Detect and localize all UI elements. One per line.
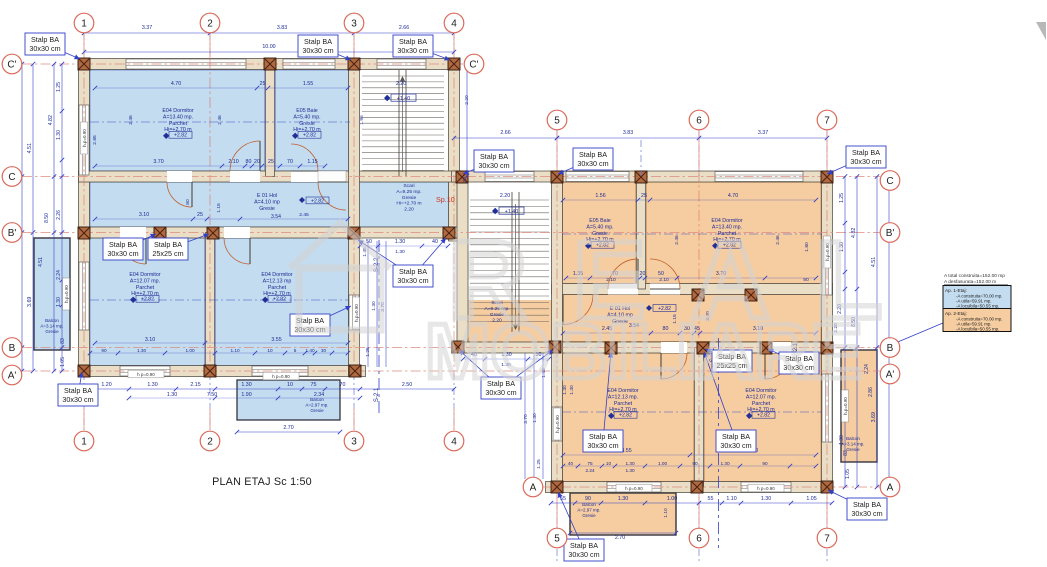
dim left chain x33 [32,64,34,371]
svg-text:30x30 cm: 30x30 cm [478,161,509,170]
wall grid2 lower [206,233,215,372]
svg-text:30x30 cm: 30x30 cm [29,44,60,53]
balcony right fill [841,350,877,462]
axis line C' [22,63,464,65]
dim between-units vertical [466,64,468,176]
dim row hol right [563,332,816,334]
svg-text:h p=0.90: h p=0.90 [272,374,290,379]
svg-text:1.25: 1.25 [56,82,62,92]
svg-text:20: 20 [254,159,260,165]
svg-text:2.24: 2.24 [585,468,595,473]
door gap B' wall room1 [120,227,146,238]
wall C interior left [79,171,460,182]
svg-text:C: C [886,176,893,187]
stalp box B' a [123,234,156,249]
axis line C [22,176,880,178]
dim stair-top right [463,358,549,360]
stalp box center [459,350,501,388]
dim row bottom-left a [95,342,348,344]
svg-text:A=4.10 mp: A=4.10 mp [254,199,280,205]
svg-text:3: 3 [351,437,357,448]
door gap B wall room1 right [765,342,791,353]
dim right chain x857 [856,177,858,488]
axis mid bottom rooms right [562,411,822,413]
grid circle A' left [2,365,22,385]
axis mid top rooms left [90,121,350,123]
window grid3 notch [349,295,359,330]
dim bottom-left row2 [129,397,360,399]
svg-text:5: 5 [294,348,297,353]
dim row hol left [95,218,348,220]
svg-text:S-2.1: S-2.1 [374,387,380,402]
svg-text:A: A [530,483,537,494]
column stalp at (270,64) [264,58,276,70]
svg-text:1.30: 1.30 [56,130,62,140]
svg-text:1.56: 1.56 [595,193,605,199]
grid circle 4 top [444,13,464,33]
grid circle 5 bottom [547,528,567,548]
door arc E04 left [230,141,260,171]
dim row bottom-right b [563,465,816,467]
svg-text:PLAN ETAJ Sc 1:50: PLAN ETAJ Sc 1:50 [212,476,312,488]
svg-text:1.96: 1.96 [359,115,365,125]
wall bottom A' left unit [79,366,366,377]
svg-text:25: 25 [260,81,266,87]
svg-text:Stalp BA: Stalp BA [852,148,880,157]
svg-text:Stalp BA: Stalp BA [579,150,607,159]
svg-text:30x30 cm: 30x30 cm [107,249,138,258]
stalp box below-right a [603,352,611,441]
svg-text:30x30 cm: 30x30 cm [397,276,428,285]
svg-text:25: 25 [641,193,647,199]
svg-text:30x30 cm: 30x30 cm [587,441,618,450]
stalp box B' b [168,234,209,249]
svg-text:Stalp BA: Stalp BA [399,37,427,46]
stalp box top grid4 [413,46,450,60]
door arc bottom room1 left [120,238,146,264]
svg-text:Stalp BA: Stalp BA [853,500,881,509]
axis stub x=210 bottom [209,408,211,430]
svg-text:7: 7 [824,116,830,127]
svg-text:Hi=+2.70 m: Hi=+2.70 m [396,201,421,207]
svg-text:MOBILIARE: MOBILIARE [425,307,863,395]
svg-text:h p=0.90: h p=0.90 [625,486,643,491]
svg-text:Ap. 1-Etaj:: Ap. 1-Etaj: [945,288,967,293]
axis stub x=84 bottom [83,408,85,430]
svg-text:h.p=0.90: h.p=0.90 [82,129,87,147]
svg-text:1.00: 1.00 [667,496,677,502]
svg-text:A': A' [8,371,17,382]
axis line B' [22,232,880,234]
svg-text:A=12.13 mp: A=12.13 mp [263,278,292,284]
grid circle C right [880,171,900,191]
room E05 Baie right [563,182,636,284]
dim right-unit top [557,137,827,139]
svg-text:A=3.14 mp.: A=3.14 mp. [841,442,864,447]
door arc bottom room2 right [661,353,687,379]
column stalp at (160,233) [154,227,166,239]
grid circle B right [880,338,900,358]
dim stair-bottom left [360,245,448,247]
svg-text:25x25 cm: 25x25 cm [152,249,183,258]
svg-text:+2.82: +2.82 [757,413,770,419]
svg-text:A=12.07 mp.: A=12.07 mp. [746,394,776,400]
grid circle 6 bottom [689,528,709,548]
svg-text:3.83: 3.83 [277,25,287,31]
svg-text:1.40: 1.40 [305,348,315,353]
stairs left treads [362,75,444,77]
svg-text:A=2.97 mp.: A=2.97 mp. [305,403,328,408]
svg-text:3.70: 3.70 [523,414,529,424]
dim notch right lines [524,353,526,479]
svg-text:h.p=0.90: h.p=0.90 [555,415,560,433]
svg-text:h p=0.90: h p=0.90 [757,486,775,491]
axis mid bottom rooms left [90,299,348,301]
wall grid6 lower [695,348,704,488]
svg-text:25: 25 [197,212,203,218]
window bottom right a [607,482,661,492]
svg-text:h.p=0.90: h.p=0.90 [354,304,359,322]
axis stub x=557 top [556,131,558,170]
svg-text:2.86: 2.86 [868,387,874,397]
svg-text:A=5.40 mp.: A=5.40 mp. [293,114,320,120]
grid line x=354 outside [353,33,355,64]
svg-text:C: C [8,172,15,183]
svg-text:1.10: 1.10 [230,348,240,353]
axis stub x=210 top [209,34,211,58]
svg-text:40: 40 [568,461,574,466]
svg-text:1.30: 1.30 [167,392,177,398]
window top stair [377,59,426,69]
svg-text:3.37: 3.37 [142,25,152,31]
room E04 Dormitor bottom-left right-unit [563,353,694,482]
axis stub x=454 top [453,34,455,58]
grid line x=210 outside [209,33,211,64]
wall grid4 upper [449,59,460,242]
svg-text:+2.82: +2.82 [174,133,187,139]
column stalp at (827,487) [821,481,833,493]
door arc baie right [608,259,638,289]
svg-text:4.70: 4.70 [171,81,181,87]
svg-text:B: B [9,343,16,354]
svg-text:2.46: 2.46 [217,115,223,125]
column stalp at (354,233) [348,227,360,239]
svg-text:2.70: 2.70 [615,535,625,541]
svg-text:A=12.13 mp.: A=12.13 mp. [608,394,638,400]
svg-text:C': C' [7,60,16,71]
svg-text:E 01 Hol: E 01 Hol [257,193,277,199]
svg-text:A=9.25 mp.: A=9.25 mp. [396,189,421,195]
dim left chain x22 [21,64,23,371]
svg-text:1.30: 1.30 [147,382,157,388]
label hol left level [299,197,305,203]
dim left chain x62 [61,64,63,371]
svg-text:3.69: 3.69 [27,297,33,307]
svg-text:4: 4 [451,19,457,30]
stalp box bottom-left [78,372,82,395]
svg-text:2.10: 2.10 [228,159,238,165]
axis stub x=454 bottom [453,408,455,430]
window bottom right b [741,482,791,492]
grid circle 5 top [547,110,567,130]
svg-text:Parchet: Parchet [614,401,633,407]
grid line x=827 outside [826,130,828,176]
dim row above y289 right [566,277,816,279]
svg-text:30x30 cm: 30x30 cm [851,509,882,518]
dim balcony bottom-right [570,532,676,534]
dim between units top [454,137,557,139]
svg-text:1.05: 1.05 [806,496,816,502]
room E04 Dormitor bottom-mid left [216,238,349,366]
svg-text:1.30: 1.30 [395,249,405,255]
column stalp at (751,295) [745,289,757,301]
window bottom left [120,366,170,376]
door gap y289 dorm right [650,284,680,295]
stairwell left floor [360,70,449,177]
svg-text:5: 5 [554,116,560,127]
grid circle 2 top [200,13,220,33]
svg-text:h.p=0.90: h.p=0.90 [64,285,69,303]
balcony bottom-right fill [570,493,676,535]
dim top row1 [84,32,454,34]
window top E04 [126,59,246,69]
column stalp at (611,348) [605,342,617,354]
column stalp at (213,233) [207,227,219,239]
svg-text:4.82: 4.82 [48,115,54,125]
parapet bottom-right 2 [748,484,784,492]
svg-text:1.30: 1.30 [761,496,771,502]
door arc stair-hol right [563,295,593,325]
grid circle 4 bottom [444,431,464,451]
grid circle 1 bottom [74,431,94,451]
svg-text:Stalp BA: Stalp BA [109,240,137,249]
svg-text:25: 25 [268,159,274,165]
svg-text:+2.82: +2.82 [619,413,632,419]
svg-text:2.15: 2.15 [190,382,200,388]
column stalp at (354,64) [348,58,360,70]
svg-text:30x30 cm: 30x30 cm [568,550,599,559]
svg-text:1.30: 1.30 [618,496,628,502]
wall top C' left unit [79,59,460,70]
svg-text:Gresie: Gresie [310,408,324,413]
svg-text:h p=0.90: h p=0.90 [137,372,155,377]
parapet left balcony [63,278,70,310]
wall interior y289 right [552,284,833,295]
svg-text:+1.40: +1.40 [505,209,518,215]
axis stub divider 641 [640,140,642,176]
svg-text:2.20: 2.20 [404,207,414,213]
stalp box bottom-mid right [558,492,584,550]
grid circle B left [2,338,22,358]
svg-text:Balcon: Balcon [582,502,596,507]
parapet right balcony [842,390,849,422]
room E04 Dormitor top-left [90,70,265,171]
svg-text:Stalp BA: Stalp BA [589,432,617,441]
section line S-2.1 left [378,240,380,414]
svg-text:83: 83 [60,338,66,344]
svg-text:Stalp BA: Stalp BA [64,386,92,395]
dim row bottom-right a [563,454,816,456]
svg-text:A': A' [886,370,895,381]
svg-text:Parchet: Parchet [268,285,287,291]
svg-text:80: 80 [185,199,191,205]
svg-text:Stalp BA: Stalp BA [570,541,598,550]
svg-text:3.10: 3.10 [145,337,155,343]
axis stub x=84 top [83,34,85,58]
svg-text:3.37: 3.37 [758,130,768,136]
wall grid5 full [552,171,563,493]
stalp box mid-left notch [358,240,413,276]
grid axis x=699 inside [698,171,700,492]
svg-text:Balcon: Balcon [45,318,59,323]
column stalp at (641,177) [635,171,647,183]
column stalp at (827,177) [821,171,833,183]
window top right b [566,172,629,182]
column stalp at (84,233) [78,227,90,239]
svg-text:10: 10 [287,382,293,388]
wall bottom A right unit [546,482,833,493]
axis stub x=354 top [353,34,355,58]
door gap C wall hol [167,171,192,182]
svg-text:1.30: 1.30 [532,413,538,423]
svg-text:2.20: 2.20 [396,81,406,87]
axis stub x=827 bottom [826,493,828,527]
grid line x=454 outside [453,33,455,64]
door gap B wall room2 right [661,342,687,353]
column stalp at (449,233) [443,227,455,239]
svg-text:30x30 cm: 30x30 cm [397,46,428,55]
svg-text:90: 90 [101,348,107,353]
svg-text:h.p=0.90: h.p=0.90 [843,397,848,415]
grid circle 7 top [817,110,837,130]
svg-text:1.05: 1.05 [845,469,851,479]
room E04 Dormitor bottom-left [90,238,205,366]
svg-text:3: 3 [351,19,357,30]
svg-text:4.70: 4.70 [728,193,738,199]
svg-text:1: 1 [81,19,87,30]
axis stub x=354 bottom [353,408,355,430]
column stalp at (355,371) [349,365,361,377]
stalp box lower grid3 [310,306,351,325]
svg-text:A=12.07 mp.: A=12.07 mp. [130,278,160,284]
door gap C wall E05 [291,171,318,182]
grid circle B' right [880,223,900,243]
parapet bottom-right 1 [616,484,652,492]
column stalp at (84,64) [78,58,90,70]
grid circle C' left [2,54,22,74]
axis line A' [22,370,880,372]
column stalp at (697,487) [691,481,703,493]
svg-text:Gresie: Gresie [259,206,275,212]
grid axis x=84 inside [83,58,85,378]
watermark REAL MOBILIARE with house logo [290,219,927,395]
wall top C right unit [452,171,833,182]
stalp box top-left [45,44,80,59]
svg-text:+2.82: +2.82 [141,297,154,303]
grid axis x=210 inside [209,58,211,378]
svg-text:8.50: 8.50 [44,213,50,223]
wall divider E05-E04 right [637,177,646,290]
parapet grid3 notch [353,297,360,329]
balcony bottom-left fill [237,380,340,420]
parapet grid5 notch [554,408,561,440]
svg-text:3.70: 3.70 [153,159,163,165]
svg-text:30x30 cm: 30x30 cm [62,395,93,404]
svg-text:+2.82: +2.82 [303,133,316,139]
svg-text:10: 10 [267,348,273,353]
svg-text:+2.82: +2.82 [273,297,286,303]
svg-text:C': C' [469,60,478,71]
svg-text:4.51: 4.51 [38,257,44,267]
svg-text:30x30 cm: 30x30 cm [302,46,333,55]
axis mid top rooms right [562,233,822,235]
svg-text:75: 75 [587,461,593,466]
door gap B' wall room2 [224,227,250,238]
dim left chain x54 [53,64,55,371]
svg-text:1: 1 [81,437,87,448]
column stalp at (827,348) [821,342,833,354]
dim bottom-left row1 [84,388,454,390]
window grid5 notch [552,407,562,441]
room E04 Dormitor bottom-right right-unit [705,353,822,482]
svg-text:Stalp BA: Stalp BA [154,240,182,249]
grid circle 3 top [344,13,364,33]
svg-text:Parchet: Parchet [752,401,771,407]
svg-text:Stalp BA: Stalp BA [480,152,508,161]
svg-text:A=3.14 mp.: A=3.14 mp. [40,324,63,329]
column stalp at (557,177) [551,171,563,183]
svg-text:2.66: 2.66 [500,130,510,136]
svg-text:40: 40 [432,239,438,245]
svg-text:1.15: 1.15 [307,159,317,165]
svg-text:3.69: 3.69 [871,412,877,422]
svg-text:Gresie: Gresie [45,329,59,334]
svg-text:1.90: 1.90 [241,392,251,398]
svg-text:Parchet: Parchet [169,121,188,127]
parapet bottom-left 2 [263,372,299,380]
door gap y289 baie right [608,284,638,295]
stalp box bottom-right corner [828,490,867,509]
door gap C wall stair left [318,171,346,182]
window bottom balcony door left [252,366,308,376]
svg-text:A desfasurata=152.00 m: A desfasurata=152.00 m [944,279,996,285]
column stalp at (210,371) [204,365,216,377]
svg-text:1.10: 1.10 [663,508,669,518]
svg-text:2.26: 2.26 [56,210,62,220]
column stalp at (766,348) [760,342,772,354]
svg-text:E05 Baie: E05 Baie [296,108,318,114]
wall tower-left right unit [457,171,468,353]
axis dash below circle x=699 [698,549,700,564]
dim row top-room right [563,199,816,201]
svg-text:2.24: 2.24 [56,270,62,280]
stalp box right 25x25 [705,349,732,361]
grid circle B' left [2,223,22,243]
column stalp at (84,371) [78,365,90,377]
svg-text:4: 4 [451,437,457,448]
svg-text:2.46: 2.46 [128,115,134,125]
svg-text:E04 Dormitor: E04 Dormitor [162,108,193,114]
dim right chain x877 [876,177,878,488]
grid axis x=354 inside [353,58,355,378]
svg-text:A=13.40 mp.: A=13.40 mp. [163,114,193,120]
svg-text:10.00: 10.00 [262,44,275,50]
wall divider E04-E05 [266,64,275,177]
svg-text:B: B [887,343,894,354]
door arc hol-stair left [318,182,346,210]
svg-text:Gresie: Gresie [299,121,315,127]
svg-text:1.30: 1.30 [371,301,377,311]
